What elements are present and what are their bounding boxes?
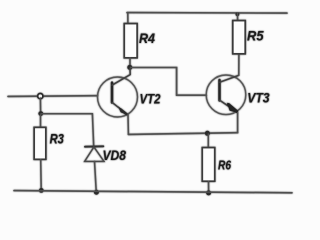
resistor R5 (233, 21, 245, 54)
node D (R3 on bottom rail) (39, 188, 44, 193)
node G (R6 on bottom rail) (206, 190, 211, 195)
wire bottom rail (14, 191, 292, 193)
svg-text:R4: R4 (139, 30, 155, 46)
wire VT3 collector up to R5 (238, 54, 240, 76)
diode VD8 cathode bar (85, 145, 103, 147)
wire R3 bottom stem (40, 159, 43, 189)
svg-text:VT3: VT3 (247, 89, 270, 105)
transistor VT3 base bar (218, 80, 220, 101)
transistor VT2 base bar (111, 83, 113, 103)
svg-text:VD8: VD8 (103, 147, 127, 163)
wire R6 bottom stem (208, 181, 210, 192)
node F (R6 top junction) (205, 131, 210, 136)
svg-text:R5: R5 (247, 27, 264, 43)
wire R4 top stem (127, 13, 129, 24)
transistor VT2 collector diagonal (112, 69, 130, 86)
diode VD8 triangle (85, 147, 104, 161)
node C (R3 / VD8 junction) (38, 111, 43, 116)
node H (R5 top on supply rail) (236, 12, 240, 16)
transistor VT3 emitter arrow (227, 102, 239, 113)
wire VD8 bottom lead (95, 161, 97, 191)
node E (VD8 on bottom rail) (94, 190, 99, 195)
resistor R3 (34, 127, 46, 159)
transistor VT2 emitter diagonal (112, 102, 127, 114)
transistor VT3 emitter diagonal (220, 100, 238, 112)
transistor VT3 body (206, 75, 246, 115)
wire R5 top stem (237, 13, 239, 21)
node B (input junction) (38, 94, 43, 99)
resistor R4 (124, 24, 137, 58)
wire node B down to node C (39, 98, 41, 112)
transistor VT2 emitter arrow (118, 106, 127, 115)
wire VT3 base lead (177, 94, 207, 96)
node A (R4 / VT2 collector junction) (127, 65, 132, 70)
svg-text:R6: R6 (218, 158, 232, 172)
svg-text:R3: R3 (50, 131, 64, 147)
wire VT3 emitter down (237, 113, 239, 133)
transistor VT2 body (98, 77, 138, 117)
wire mid emitter rail to R6 and VT3 (128, 133, 237, 135)
wire R4 bottom stem (129, 58, 131, 66)
wire node C to VD8 anode corner (41, 113, 92, 115)
transistor VT3 collector diagonal (220, 75, 239, 82)
wire VT2 emitter down (127, 115, 129, 135)
wire node C down to R3 (40, 115, 42, 127)
wire VD8 top lead (92, 114, 93, 147)
wire node A to right elbow (131, 68, 177, 96)
resistor R6 (202, 148, 214, 182)
wire left input to VT2 base (8, 95, 98, 98)
svg-text:VT2: VT2 (140, 91, 161, 107)
wire top supply rail (127, 12, 287, 15)
wire R6 top stem (207, 134, 209, 148)
